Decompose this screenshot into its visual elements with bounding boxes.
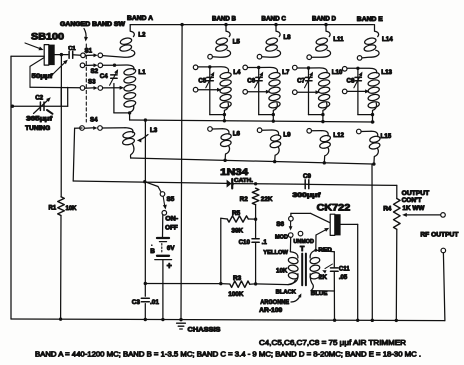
svg-text:R2: R2 — [240, 196, 249, 203]
svg-text:OUTPUT: OUTPUT — [402, 190, 430, 197]
svg-text:L6: L6 — [233, 130, 241, 137]
svg-text:S5: S5 — [167, 196, 175, 203]
svg-text:10K: 10K — [66, 206, 78, 212]
svg-text:6V: 6V — [167, 245, 175, 252]
svg-text:BAND D: BAND D — [312, 15, 336, 22]
svg-text:YELLOW: YELLOW — [263, 250, 288, 256]
svg-text:L1: L1 — [138, 69, 146, 76]
svg-text:L3: L3 — [150, 127, 158, 134]
svg-text:BAND C: BAND C — [261, 15, 286, 22]
svg-text:10K: 10K — [276, 268, 288, 275]
svg-text:C8: C8 — [347, 78, 355, 85]
svg-text:100K: 100K — [228, 291, 244, 298]
svg-text:L10: L10 — [332, 69, 343, 76]
svg-text:L7: L7 — [282, 69, 290, 76]
svg-text:R5: R5 — [232, 210, 241, 217]
svg-text:R1: R1 — [49, 205, 57, 211]
svg-text:.05: .05 — [339, 275, 348, 281]
svg-text:BLACK: BLACK — [276, 290, 297, 296]
svg-text:1N34: 1N34 — [220, 167, 248, 177]
svg-text:BAND A = 440-1200 MC; BAND B: BAND A = 440-1200 MC; BAND B = 1-3.5 MC;… — [35, 351, 421, 358]
svg-text:L11: L11 — [333, 36, 344, 43]
svg-text:S3: S3 — [88, 79, 96, 86]
svg-text:L2: L2 — [138, 32, 146, 39]
svg-text:L8: L8 — [283, 34, 291, 41]
svg-text:C1: C1 — [68, 46, 76, 52]
svg-text:50μμf: 50μμf — [32, 73, 54, 80]
svg-text:GANGED BAND SW: GANGED BAND SW — [60, 22, 125, 28]
svg-text:CATH.: CATH. — [234, 178, 253, 184]
svg-text:2K: 2K — [319, 274, 328, 281]
svg-text:C5: C5 — [198, 78, 206, 85]
svg-text:BAND B: BAND B — [212, 15, 236, 22]
svg-text:AR-109: AR-109 — [259, 307, 283, 314]
svg-text:C4,C5,C6,C7,C8 = 75 μμf AIR: C4,C5,C6,C7,C8 = 75 μμf AIR TRIMMER — [259, 340, 406, 347]
svg-text:L4: L4 — [233, 69, 241, 76]
svg-text:CHASSIS: CHASSIS — [188, 327, 222, 334]
svg-text:BAND E: BAND E — [357, 16, 384, 23]
svg-text:S2: S2 — [91, 68, 99, 75]
svg-text:C2: C2 — [35, 94, 43, 101]
svg-text:.01: .01 — [150, 299, 159, 306]
svg-text:L15: L15 — [381, 133, 392, 140]
svg-text:ON-: ON- — [165, 217, 178, 223]
svg-text:C3: C3 — [132, 299, 141, 306]
svg-text:RF OUTPUT: RF OUTPUT — [420, 231, 458, 238]
svg-text:TUNING: TUNING — [25, 125, 50, 132]
svg-text:300μμf: 300μμf — [292, 192, 321, 199]
svg-text:+: + — [167, 260, 172, 270]
svg-text:22K: 22K — [261, 196, 273, 203]
svg-text:R3: R3 — [233, 275, 242, 282]
svg-text:C9: C9 — [303, 173, 311, 180]
svg-text:.1: .1 — [262, 239, 268, 246]
svg-text:ARGONNE: ARGONNE — [260, 299, 289, 306]
svg-text:S6: S6 — [276, 221, 284, 228]
svg-text:BLUE: BLUE — [311, 291, 328, 297]
svg-text:C4: C4 — [100, 73, 108, 80]
svg-text:S4: S4 — [90, 117, 98, 124]
svg-text:T: T — [300, 244, 305, 253]
svg-text:SB100: SB100 — [31, 32, 64, 42]
svg-text:CON'T: CON'T — [402, 197, 422, 204]
svg-text:B: B — [150, 248, 155, 255]
svg-text:L14: L14 — [382, 36, 393, 43]
svg-text:OFF: OFF — [165, 226, 178, 232]
svg-text:S1: S1 — [85, 48, 93, 55]
svg-text:L9: L9 — [283, 132, 291, 139]
svg-text:R4: R4 — [383, 206, 392, 213]
svg-text:CK722: CK722 — [317, 203, 351, 213]
svg-text:C7: C7 — [297, 78, 305, 85]
svg-text:1K WW: 1K WW — [402, 205, 424, 212]
svg-text:39K: 39K — [231, 227, 243, 234]
svg-text:BAND A: BAND A — [127, 15, 153, 22]
svg-text:L12: L12 — [333, 132, 344, 139]
svg-text:C11: C11 — [339, 266, 350, 272]
svg-text:MOD: MOD — [275, 235, 288, 241]
svg-text:L13: L13 — [381, 69, 392, 76]
svg-text:C6: C6 — [247, 78, 255, 85]
svg-text:365μμf: 365μμf — [26, 115, 53, 122]
svg-text:L5: L5 — [233, 39, 241, 46]
svg-text:C10: C10 — [239, 239, 251, 246]
